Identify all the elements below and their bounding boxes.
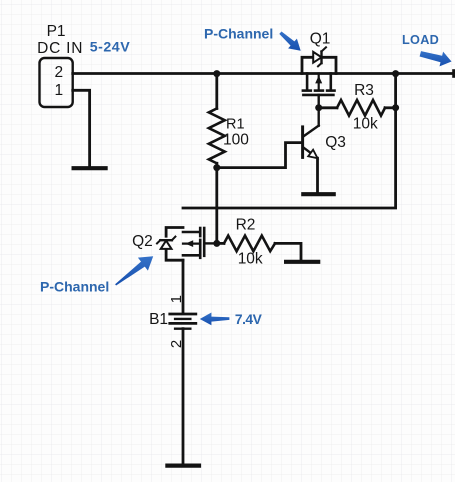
node R3 right — [392, 104, 399, 111]
wire battery to ground — [182, 329, 185, 464]
svg-text:1: 1 — [54, 82, 63, 99]
wire R3 right to load node — [385, 106, 396, 109]
arrow P-Channel top to Q1 — [279, 32, 300, 51]
Q1 channel bars — [303, 89, 311, 92]
svg-text:Q1: Q1 — [310, 30, 331, 47]
Q3 emitter diagonal — [304, 148, 317, 158]
wire R1 bottom to Q2 gate node — [215, 163, 218, 243]
wire load node down to Q2 drain — [183, 74, 396, 209]
node rail to R1 — [213, 70, 220, 77]
Q1 drain stub — [329, 74, 332, 90]
svg-text:1: 1 — [168, 295, 185, 303]
svg-text:10k: 10k — [238, 251, 263, 268]
wire R1 bottom node to Q3 base — [217, 143, 301, 168]
svg-text:10k: 10k — [353, 116, 378, 133]
arrow LOAD to rail — [420, 51, 452, 66]
svg-text:DC IN: DC IN — [37, 40, 83, 57]
wire P1 pin1 to ground — [73, 90, 90, 166]
transistor Q3 — [303, 108, 319, 159]
Q3 collector diagonal — [304, 126, 319, 137]
ground right of R2 — [284, 260, 320, 264]
ground below battery — [165, 464, 201, 468]
svg-text:5-24V: 5-24V — [90, 39, 130, 55]
resistor R3 10k — [337, 100, 385, 116]
node R1 bottom — [213, 164, 220, 171]
Q2 body diode (zener) — [161, 241, 172, 249]
svg-text:R3: R3 — [354, 82, 374, 99]
Q1 body diode loop — [302, 57, 336, 73]
svg-text:P-Channel: P-Channel — [40, 279, 109, 295]
node Q2 gate R2 — [213, 240, 220, 247]
Q2 body diode loop — [166, 228, 183, 261]
wire rail open end marker — [452, 71, 455, 76]
Q2 gate lead — [204, 242, 217, 244]
svg-text:R1: R1 — [226, 117, 245, 133]
wire Q3 emitter to ground — [316, 158, 319, 192]
arrow P-Channel bottom to Q2 — [115, 256, 153, 285]
node rail to load branch — [392, 70, 399, 77]
Q3 collector lead — [318, 108, 320, 126]
svg-text:7.4V: 7.4V — [235, 312, 263, 327]
Q2 body connection with arrow — [183, 243, 200, 245]
Q3 emitter arrowhead — [308, 150, 317, 159]
resistor R2 10k — [224, 236, 275, 252]
Q1 source stub — [306, 74, 309, 90]
svg-text:LOAD: LOAD — [402, 33, 439, 47]
arrow 7.4V to battery — [200, 313, 230, 326]
svg-text:P1: P1 — [47, 23, 66, 40]
Q2 gate bar — [203, 228, 206, 256]
Q1 body diode (zener) — [313, 52, 321, 63]
resistor R1 100 — [209, 109, 225, 164]
svg-text:B1: B1 — [149, 311, 168, 328]
Q2 channel bars — [199, 228, 202, 236]
svg-text:Q2: Q2 — [132, 233, 153, 250]
ground below Q3 — [301, 192, 336, 196]
ground below P1 — [72, 166, 108, 170]
wire R2 right to ground — [275, 243, 301, 259]
mosfet Q2 — [157, 228, 217, 261]
svg-text:P-Channel: P-Channel — [204, 26, 273, 42]
svg-text:R2: R2 — [236, 217, 256, 234]
svg-text:Q3: Q3 — [325, 134, 346, 151]
Q2 source stub — [183, 254, 200, 257]
mosfet Q1 — [302, 47, 336, 107]
svg-text:2: 2 — [168, 340, 185, 348]
wire rail to R1 — [215, 74, 218, 109]
Q1 gate bar — [303, 94, 333, 97]
battery B1 — [168, 314, 197, 329]
Q3 base bar — [301, 127, 304, 157]
Q1 gate lead — [318, 95, 320, 108]
wire Q1 gate node to R3 — [319, 106, 337, 109]
svg-text:2: 2 — [54, 64, 63, 81]
Q1 body connection with arrow — [318, 74, 320, 90]
wire Q2 gate node to R2 — [217, 242, 224, 245]
wire main rail DC IN to LOAD — [73, 72, 454, 75]
svg-text:100: 100 — [223, 131, 249, 148]
Q2 drain stub — [183, 231, 200, 234]
connector P1 — [40, 58, 73, 107]
node Q1 gate R3 Q3 collector — [315, 104, 322, 111]
wire Q2 source down to battery — [182, 260, 185, 313]
